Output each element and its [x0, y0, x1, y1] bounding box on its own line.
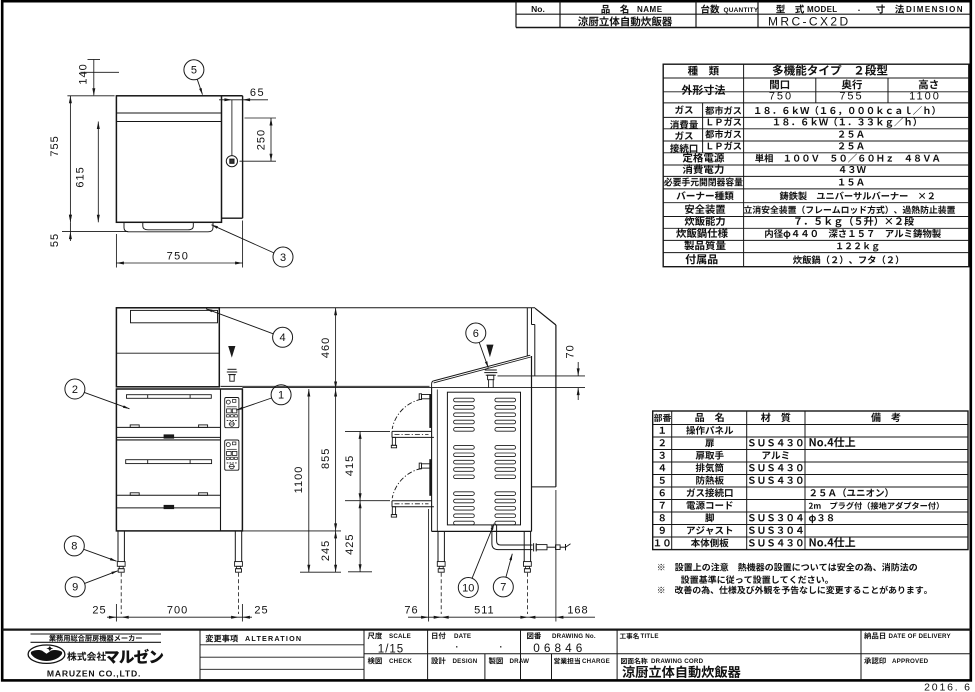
svg-text:3: 3	[280, 252, 286, 264]
balloon 2 (door)	[65, 379, 130, 409]
svg-text:140: 140	[78, 63, 90, 84]
balloon 10 (body side panel)	[458, 524, 494, 598]
alteration label	[206, 634, 303, 643]
front view dim: 1100	[293, 389, 310, 572]
plan view dim: 250	[240, 118, 277, 161]
side view: louvered body side panel (item 10)	[447, 392, 520, 525]
side view: rear leg with adjuster	[524, 531, 532, 614]
front view dim: 460	[320, 308, 337, 389]
date stamp 2016.6	[924, 682, 972, 692]
balloon 1 (operation panel)	[236, 385, 291, 410]
plan view: rear double lines	[116, 113, 221, 122]
svg-text:MRC-CX2D: MRC-CX2D	[768, 15, 851, 29]
svg-text:No.: No.	[531, 4, 545, 14]
svg-text:MODEL: MODEL	[807, 5, 837, 14]
svg-text:.: .	[858, 3, 861, 13]
svg-text:700: 700	[167, 605, 188, 617]
maruzen company logo	[28, 634, 163, 678]
svg-text:APPROVED: APPROVED	[892, 658, 929, 665]
svg-text:DATE OF DELIVERY: DATE OF DELIVERY	[889, 633, 952, 640]
front view dim: 245	[300, 531, 341, 572]
title block row 2 labels and drawing name	[368, 657, 929, 678]
svg-text:415: 415	[344, 455, 356, 476]
side view dim: 70	[498, 344, 586, 400]
svg-text:8: 8	[71, 541, 77, 553]
title block grid	[2, 630, 971, 680]
svg-text:70: 70	[565, 344, 577, 358]
svg-text:MARUZEN CO.,LTD.: MARUZEN CO.,LTD.	[47, 668, 141, 678]
svg-text:NAME: NAME	[637, 5, 663, 14]
svg-text:750: 750	[769, 91, 793, 103]
svg-text:10: 10	[462, 582, 474, 594]
svg-text:755: 755	[49, 135, 61, 156]
svg-text:1: 1	[278, 390, 284, 402]
front view dim: 855	[242, 389, 341, 531]
top info table header	[531, 3, 964, 14]
plan view dim: 615	[74, 122, 100, 223]
installation notes	[658, 563, 927, 594]
balloon 5 (heat shield plate)	[184, 60, 204, 95]
svg-text:DIMENSION: DIMENSION	[906, 5, 964, 14]
top info table row: product name / model	[578, 15, 850, 29]
svg-text:ALTERATION: ALTERATION	[245, 634, 302, 643]
svg-text:5: 5	[191, 65, 197, 77]
side view: upper door shown open with swing arc	[391, 394, 434, 448]
svg-text:425: 425	[344, 534, 356, 555]
svg-text:615: 615	[74, 166, 86, 187]
side view dim: 425	[344, 501, 390, 572]
plan view: door front bulge and handle	[124, 222, 213, 232]
balloon 8 (leg)	[64, 536, 116, 561]
svg-text:SCALE: SCALE	[389, 633, 411, 640]
svg-text:855: 855	[320, 448, 332, 469]
svg-text:QUANTITY: QUANTITY	[724, 7, 759, 14]
front view: left leg with adjuster	[117, 531, 125, 614]
side view: front leg with adjuster	[437, 531, 445, 614]
side view: hood back and exhaust duct outline	[527, 308, 556, 487]
spec table text	[664, 65, 955, 265]
side view: lower door shown open with swing arc	[391, 463, 434, 517]
side view: gas inlet fitting on sloped top	[484, 345, 497, 388]
svg-text:DRAW: DRAW	[510, 658, 530, 665]
front view: right leg with adjuster	[235, 531, 243, 614]
svg-text:1100: 1100	[293, 466, 305, 494]
front view dim: 25 700 25	[92, 604, 268, 622]
svg-text:1100: 1100	[909, 91, 941, 103]
side view dim: 415	[344, 431, 390, 500]
svg-text:DESIGN: DESIGN	[453, 658, 478, 665]
svg-text:55: 55	[49, 233, 61, 247]
balloon 3 (door handle)	[212, 225, 294, 267]
svg-text:6: 6	[473, 328, 479, 340]
svg-text:250: 250	[256, 129, 268, 150]
svg-text:168: 168	[567, 605, 588, 617]
svg-text:TITLE: TITLE	[641, 633, 659, 640]
plan view dim: 755	[49, 96, 128, 232]
plan view: body outline	[116, 96, 242, 223]
plan view dim: 750	[116, 221, 242, 268]
svg-text:0 6 8 4 6: 0 6 8 4 6	[533, 641, 583, 655]
side view: closed door front faces	[430, 395, 432, 496]
side view dim: 76 511 168	[404, 490, 595, 622]
front view: body outline	[116, 389, 242, 531]
plan view: gas connection fitting	[226, 100, 237, 167]
svg-text:7: 7	[500, 582, 506, 594]
side view: hood top line and shared extension line	[116, 307, 535, 309]
plan view dim: 65	[219, 87, 268, 103]
svg-text:CHECK: CHECK	[389, 658, 412, 665]
side view: body outline	[242, 356, 585, 531]
balloon 6 (gas connection)	[466, 323, 489, 368]
parts table text	[654, 413, 939, 548]
front view: gas inlet fitting on panel top	[227, 346, 237, 381]
balloon 7 (power cord)	[493, 554, 513, 597]
side view: sloped top panel	[432, 355, 531, 387]
svg-text:4: 4	[280, 332, 286, 344]
svg-text:750: 750	[167, 251, 190, 263]
plan view: control panel box	[222, 96, 243, 218]
plan view dim: 55	[49, 213, 72, 247]
parts table grid	[653, 411, 968, 550]
svg-text:·: ·	[456, 642, 459, 652]
svg-text:9: 9	[72, 582, 78, 594]
svg-text:755: 755	[839, 91, 863, 103]
svg-text:·: ·	[500, 642, 503, 652]
front view: control panel column	[221, 386, 243, 470]
side view: rear pipe and union at bottom	[492, 525, 571, 552]
svg-text:1/15: 1/15	[378, 644, 404, 656]
spec table grid	[663, 64, 969, 267]
svg-text:DRAWING No.: DRAWING No.	[552, 633, 596, 640]
svg-text:25: 25	[92, 605, 106, 617]
svg-text:65: 65	[250, 87, 265, 99]
top info table grid	[516, 2, 971, 28]
svg-text:25: 25	[254, 605, 268, 617]
svg-text:245: 245	[320, 540, 332, 561]
svg-text:DATE: DATE	[454, 633, 471, 640]
svg-text:511: 511	[474, 605, 495, 617]
balloon 9 (adjuster)	[65, 571, 118, 597]
plan view dim: 140	[78, 60, 119, 96]
svg-text:DRAWING CORD: DRAWING CORD	[651, 658, 704, 665]
front view: exhaust hood box	[116, 308, 219, 387]
title block row 1 labels	[368, 632, 952, 655]
svg-text:460: 460	[320, 337, 332, 358]
balloon 4 (exhaust duct)	[206, 309, 293, 348]
svg-text:76: 76	[404, 605, 418, 617]
front view: cooker doors and vent slots	[116, 395, 220, 509]
svg-text:2016. 6: 2016. 6	[924, 682, 972, 692]
svg-text:2: 2	[72, 384, 78, 396]
svg-text:CHARGE: CHARGE	[582, 658, 610, 665]
